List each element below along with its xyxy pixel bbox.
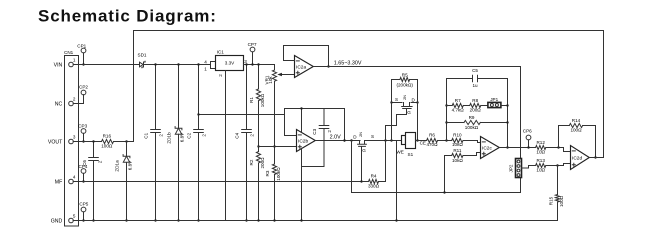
svg-text:C2: C2 [186,132,191,138]
resistor R7 [452,103,463,107]
svg-text:R15: R15 [548,196,553,205]
svg-text:4: 4 [73,174,76,179]
IC2c output wire [499,147,535,149]
regulator IC1 box [216,56,244,71]
IC2b feedback loop [285,109,345,141]
connector CN1 box [65,56,79,227]
capacitor C3 column [323,109,325,167]
svg-text:GND: GND [51,218,63,224]
svg-text:G: G [362,148,366,153]
svg-text:2: 2 [250,134,255,137]
wire VOUT row [79,141,102,143]
svg-text:C6: C6 [82,160,87,166]
resistor R15 column to ground [557,166,559,195]
svg-text:2: 2 [218,74,223,77]
op-amp IC2a [295,56,314,78]
svg-text:2: 2 [98,160,103,163]
svg-text:R6: R6 [429,133,435,138]
wire R7 to R8 [463,105,469,107]
svg-text:3: 3 [73,134,76,139]
svg-text:R2: R2 [249,159,254,165]
svg-text:470Ω: 470Ω [426,142,438,147]
svg-text:SD1: SD1 [138,53,147,58]
svg-text:CP1: CP1 [77,43,86,48]
op-amp IC2d [571,146,590,170]
svg-text:100Ω: 100Ω [570,128,582,133]
svg-text:2: 2 [327,130,332,133]
wire network left col to R7 [447,105,453,107]
svg-text:MF: MF [55,180,63,186]
capacitor C4 column [246,65,248,221]
svg-text:CE: CE [420,141,426,146]
wire VIN row from pin1 to SD1 [79,64,140,66]
svg-text:IC2c: IC2c [482,145,492,151]
network left column [446,79,448,141]
svg-text:IC2d: IC2d [572,155,582,161]
svg-text:C1: C1 [143,132,148,138]
switch S1 [402,136,406,145]
resistor R10 [452,138,463,142]
svg-text:200Ω: 200Ω [470,107,482,112]
network right column [507,79,509,148]
svg-text:R14: R14 [572,118,581,123]
ground rail [73,220,557,222]
svg-text:S1: S1 [408,152,414,157]
svg-text:CP2: CP2 [79,84,88,89]
svg-text:100kΩ: 100kΩ [276,167,281,181]
svg-text:2: 2 [73,96,76,101]
svg-text:R3: R3 [265,170,270,176]
wire R10 to IC2c minus input [463,141,481,143]
svg-text:200Ω: 200Ω [260,157,265,169]
IC1 pin4 pin1 jog [211,62,216,69]
svg-text:1u: 1u [472,83,478,88]
svg-text:1: 1 [204,67,207,72]
resistor R3 column [272,164,276,175]
svg-text:R13: R13 [536,158,545,163]
svg-text:S: S [395,97,398,102]
svg-text:1: 1 [73,57,76,62]
resistor R16 [102,139,114,143]
svg-text:100kΩ: 100kΩ [465,125,479,130]
capacitor C5 top branch [447,78,508,80]
svg-text:10k: 10k [268,76,273,84]
ground drop near S1 [396,141,398,221]
svg-text:CP6: CP6 [523,129,532,134]
resistor R8 [470,103,481,107]
svg-text:4: 4 [204,60,207,65]
svg-text:5: 5 [73,213,76,218]
zener diode ZD1a column [126,142,128,221]
Q1 gate path [386,109,407,126]
CN1 pin 5 [69,218,74,223]
svg-text:IC2a: IC2a [296,64,306,70]
svg-text:6.8V: 6.8V [127,160,132,170]
Q2 gate wire to MF row [361,147,363,182]
svg-text:1.65~3.30V: 1.65~3.30V [334,60,362,66]
svg-text:3.3V: 3.3V [225,61,235,66]
svg-text:IC1: IC1 [217,50,225,55]
wire NC pin to CP2 [79,95,84,104]
svg-text:10kΩ: 10kΩ [452,158,463,163]
Q1 source column down to S1 row [391,103,393,141]
resistor R1 column [258,65,260,89]
wire S1 to R6 [416,140,427,142]
svg-text:CP7: CP7 [248,42,257,47]
svg-text:4.7kΩ: 4.7kΩ [452,107,465,112]
op-amp IC2c [481,137,500,159]
svg-text:2: 2 [159,134,164,137]
wire 2.0V node down to bottom net [352,141,521,193]
svg-text:10Ω: 10Ω [536,150,545,155]
potentiometer VR1 column [274,65,276,71]
svg-text:2: 2 [202,134,207,137]
wire R12 to IC2d minus input [546,148,571,152]
svg-text:CP3: CP3 [78,124,87,129]
svg-text:C5: C5 [472,68,478,73]
resistor R4 on MF row [369,179,379,183]
svg-text:VIN: VIN [54,62,63,68]
resistor R12 [536,145,546,149]
top feedback wire [134,31,604,158]
svg-text:ZD1b: ZD1b [167,132,172,144]
svg-text:R1: R1 [249,97,254,103]
IC2a output wire 1.65-3.30V [313,67,520,159]
CN1 pin 1 [69,62,74,67]
svg-text:100Ω: 100Ω [101,143,113,148]
svg-text:100kΩ: 100kΩ [260,93,265,107]
svg-text:ZD1a: ZD1a [115,160,120,172]
wire Q1 row [392,102,418,104]
resistor R2 column [256,152,260,164]
svg-text:R9: R9 [469,115,475,120]
R4 right lead up to Q1 gate path [379,126,386,182]
svg-text:WE: WE [396,149,403,154]
wire IC2b minus node [199,114,285,116]
svg-text:2.0V: 2.0V [330,135,341,141]
op-amp IC2b [297,130,316,152]
wire R13 to IC2d plus input [546,164,571,166]
resistor R5 bridge [392,80,418,103]
svg-text:R4: R4 [371,173,377,178]
wire IC2b bottom to capacitor C3 [302,167,325,221]
svg-text:IC2b: IC2b [298,138,308,144]
wire JP1 to right column [501,105,508,107]
wire R6 to R10 [438,140,452,142]
svg-text:JP2: JP2 [509,164,514,172]
resistor R13 [536,163,546,167]
wire JP2 middle pin to R13 [522,166,536,169]
Q1 drain column down to CE node [417,103,419,141]
svg-text:R10: R10 [453,133,462,138]
wire 3.3V input rail SD1 to IC1 [145,64,211,66]
CN1 pin 3 [69,139,74,144]
resistor R6 [427,138,438,142]
svg-text:2N: 2N [403,95,407,100]
feedback column from top wire to VOUT node [133,31,135,142]
svg-text:G: G [407,110,411,115]
svg-text:C4: C4 [234,132,239,138]
zener diode ZD1b column [178,65,180,221]
wire R8 to JP1 [481,105,488,107]
svg-text:Schematic Diagram:: Schematic Diagram: [38,7,217,26]
CN1 pin 2 [69,101,74,106]
svg-text:R5: R5 [402,73,408,78]
svg-text:R7: R7 [455,98,461,103]
svg-text:10Ω: 10Ω [536,168,545,173]
svg-text:R16: R16 [103,133,112,138]
diode SD1 [140,62,144,67]
IC2b supply stubs [301,109,303,167]
wire IC2b output 2.0V row [315,140,360,142]
svg-text:CN1: CN1 [64,50,74,55]
svg-text:100Ω: 100Ω [559,195,564,207]
svg-text:C3: C3 [312,128,317,134]
svg-text:NC: NC [55,102,63,108]
svg-text:2N: 2N [359,132,363,137]
capacitor C1 column [155,65,157,221]
svg-text:R11: R11 [453,148,462,153]
svg-text:10kΩ: 10kΩ [452,142,463,147]
wire MF row [79,181,363,183]
IC1 pin 2 lead to ground [225,71,227,221]
CN1 pin 4 [69,179,74,184]
capacitor C6 column on VOUT [93,142,95,221]
wire IC2b plus input from divider [259,146,297,148]
svg-text:VOUT: VOUT [48,140,63,146]
wire MF to R4 [363,181,369,183]
svg-text:330Ω: 330Ω [368,184,380,189]
wire R11 branch [445,156,452,193]
svg-text:CP5: CP5 [79,202,88,207]
VR1 wiper arrow to IC2a + input [281,74,295,76]
wire Q2 source to S1 [365,140,402,142]
svg-text:R12: R12 [536,140,545,145]
svg-text:(200kΩ): (200kΩ) [396,82,413,87]
resistor R9 branch [447,122,465,124]
svg-text:R8: R8 [472,98,478,103]
capacitor C2 column [198,65,200,221]
resistor R14 feedback [559,126,570,148]
svg-text:S: S [371,134,374,139]
wire R11 to IC2c plus input [463,153,481,156]
IC2a feedback loop [284,46,329,67]
resistor R11 [452,153,463,157]
wire R16 to feedback column [114,141,134,143]
svg-text:JP1: JP1 [490,97,498,102]
IC2d output wire [589,157,603,159]
svg-text:6.8V: 6.8V [179,132,184,142]
